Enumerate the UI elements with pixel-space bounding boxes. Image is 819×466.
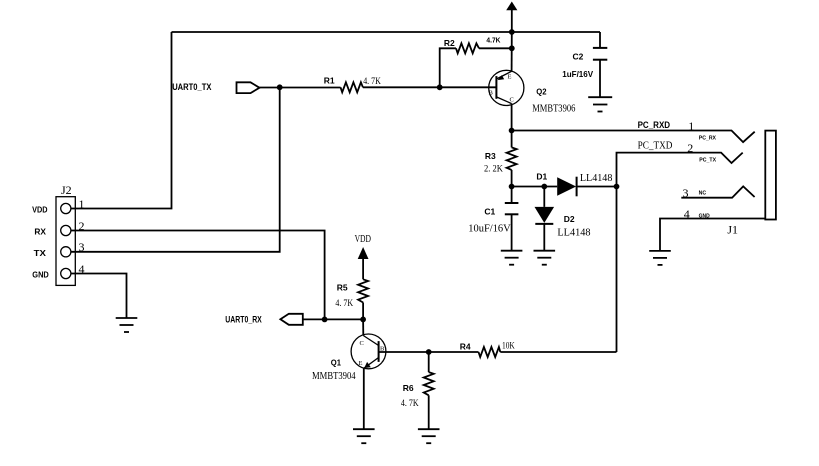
ground (Q1 emitter) (353, 429, 375, 443)
ground (J2 pin 4) (116, 318, 138, 332)
svg-text:D2: D2 (564, 214, 575, 224)
junction (R5 / Q1 collector) (360, 317, 366, 323)
junction (UART0_TX / J2.3) (277, 84, 283, 90)
wire R5 to UART0_RX node (362, 303, 364, 320)
power VDD symbol (top) (506, 2, 517, 33)
svg-text:R5: R5 (337, 283, 348, 293)
wire R2 left leg (440, 48, 456, 87)
wire VDD to Q2 emitter (511, 32, 513, 71)
svg-text:4. 7K: 4. 7K (335, 299, 353, 309)
svg-text:PC_TXD: PC_TXD (638, 141, 673, 152)
svg-text:4. 7K: 4. 7K (401, 399, 419, 409)
svg-text:PC_TX: PC_TX (699, 158, 716, 164)
svg-text:R6: R6 (403, 383, 414, 393)
wire R1 to Q2 base (363, 86, 497, 88)
transistor Q2 (489, 70, 524, 105)
junction (R2 / emitter) (509, 45, 515, 51)
diode D2 (535, 187, 555, 251)
capacitor C1 (505, 187, 519, 251)
wire R4 to PC_TXD column (500, 351, 616, 353)
transistor Q1 (351, 334, 386, 369)
wire net PC_RXD (512, 131, 755, 143)
wire UART0_RX to R5 node (303, 318, 363, 320)
wire J2 pin 4 to ground (71, 274, 127, 319)
wire D1 cathode to PC_TXD column (577, 186, 617, 188)
wire node to Q1 collector (362, 319, 364, 335)
svg-text:E: E (508, 74, 512, 81)
svg-text:1uF/16V: 1uF/16V (562, 69, 593, 79)
junction (VDD rail) (509, 29, 515, 35)
svg-text:J2: J2 (61, 183, 72, 197)
svg-text:3: 3 (683, 186, 689, 200)
svg-text:R2: R2 (444, 38, 455, 48)
power VDD symbol (R5) (355, 233, 371, 279)
svg-text:VDD: VDD (355, 233, 371, 245)
capacitor C2 (593, 32, 607, 97)
svg-text:1: 1 (688, 119, 694, 133)
wire node to D1 anode (512, 186, 558, 188)
junction (base / R6) (426, 349, 432, 355)
svg-text:PC_RX: PC_RX (699, 135, 717, 141)
port flag UART0_TX (237, 82, 260, 93)
svg-text:PC_RXD: PC_RXD (638, 120, 671, 130)
svg-text:TX: TX (34, 248, 47, 258)
port flag UART0_RX (280, 314, 302, 325)
svg-text:GND: GND (32, 270, 49, 280)
svg-text:C1: C1 (484, 207, 495, 217)
junction (collector / PC_RXD) (509, 128, 515, 134)
svg-text:4.7K: 4.7K (486, 36, 501, 45)
wire J2 pin 2 to UART0_RX node (71, 231, 325, 320)
svg-text:D1: D1 (536, 172, 547, 182)
wire J1 pin 3 NC (681, 186, 754, 197)
ground (C2) (588, 97, 612, 111)
wire J2 pin 3 to UART0_TX node (71, 87, 280, 252)
svg-text:4: 4 (684, 207, 690, 221)
svg-text:LL4148: LL4148 (557, 228, 590, 239)
wire net PC_TXD (617, 153, 743, 352)
junction (D1 anode / D2) (541, 184, 547, 190)
svg-text:R1: R1 (324, 75, 335, 85)
wire Q1 base to R4 (379, 351, 479, 353)
junction (R3 / C1 / D1) (509, 184, 515, 190)
svg-text:Q1: Q1 (331, 359, 342, 368)
svg-text:Q2: Q2 (536, 88, 547, 97)
svg-text:10uF/16V: 10uF/16V (468, 222, 510, 234)
ground (D2) (534, 251, 556, 265)
resistor R1 (341, 82, 363, 92)
wire VDD rail to J2 pin 1 (71, 32, 172, 209)
svg-text:C2: C2 (573, 52, 584, 62)
svg-text:C: C (510, 97, 514, 104)
svg-text:R4: R4 (460, 341, 471, 351)
ground (R6) (418, 429, 440, 443)
wire R3 to D1 node (511, 170, 513, 187)
resistor R3 (507, 147, 517, 170)
resistor R6 (424, 352, 434, 429)
svg-text:MMBT3906: MMBT3906 (532, 102, 576, 114)
svg-text:E: E (359, 360, 363, 367)
svg-text:RX: RX (34, 227, 46, 237)
junction (D1 / PC_TXD column) (614, 184, 620, 190)
svg-text:10K: 10K (502, 342, 515, 352)
diode D1 (557, 177, 576, 197)
ground (J1 pin 4) (649, 251, 671, 265)
wire PC_RXD to R3 (511, 131, 513, 148)
wire UART0_TX to R1 (260, 87, 341, 89)
svg-text:R3: R3 (485, 151, 496, 161)
svg-text:GND: GND (699, 213, 710, 219)
svg-text:UART0_RX: UART0_RX (225, 314, 262, 325)
svg-text:2. 2K: 2. 2K (484, 165, 503, 175)
svg-text:NC: NC (699, 191, 707, 197)
connector J1 body (765, 131, 776, 220)
wire R2 to VDD column (479, 47, 512, 49)
resistor R2 (456, 43, 479, 53)
ground (C1) (501, 251, 523, 265)
svg-text:LL4148: LL4148 (580, 173, 613, 184)
svg-text:J1: J1 (727, 223, 738, 237)
wire J1 pin 4 to ground (660, 219, 765, 251)
svg-text:C: C (360, 340, 364, 347)
resistor R5 (358, 279, 368, 302)
connector J2 (56, 197, 75, 286)
svg-text:1: 1 (79, 197, 85, 211)
wire Q2 collector to PC_RXD node (511, 104, 513, 131)
svg-text:MMBT3904: MMBT3904 (312, 370, 356, 382)
junction (UART0_RX / J2.2) (322, 317, 328, 323)
svg-text:VDD: VDD (32, 205, 47, 215)
svg-text:B: B (489, 90, 494, 97)
wire VDD rail (172, 31, 601, 33)
wire Q1 emitter to ground (363, 368, 365, 429)
junction (R1 / R2) (437, 84, 443, 90)
svg-text:UART0_TX: UART0_TX (172, 82, 212, 93)
svg-text:2: 2 (687, 141, 693, 155)
resistor R4 (479, 347, 501, 357)
svg-text:4. 7K: 4. 7K (363, 77, 381, 87)
